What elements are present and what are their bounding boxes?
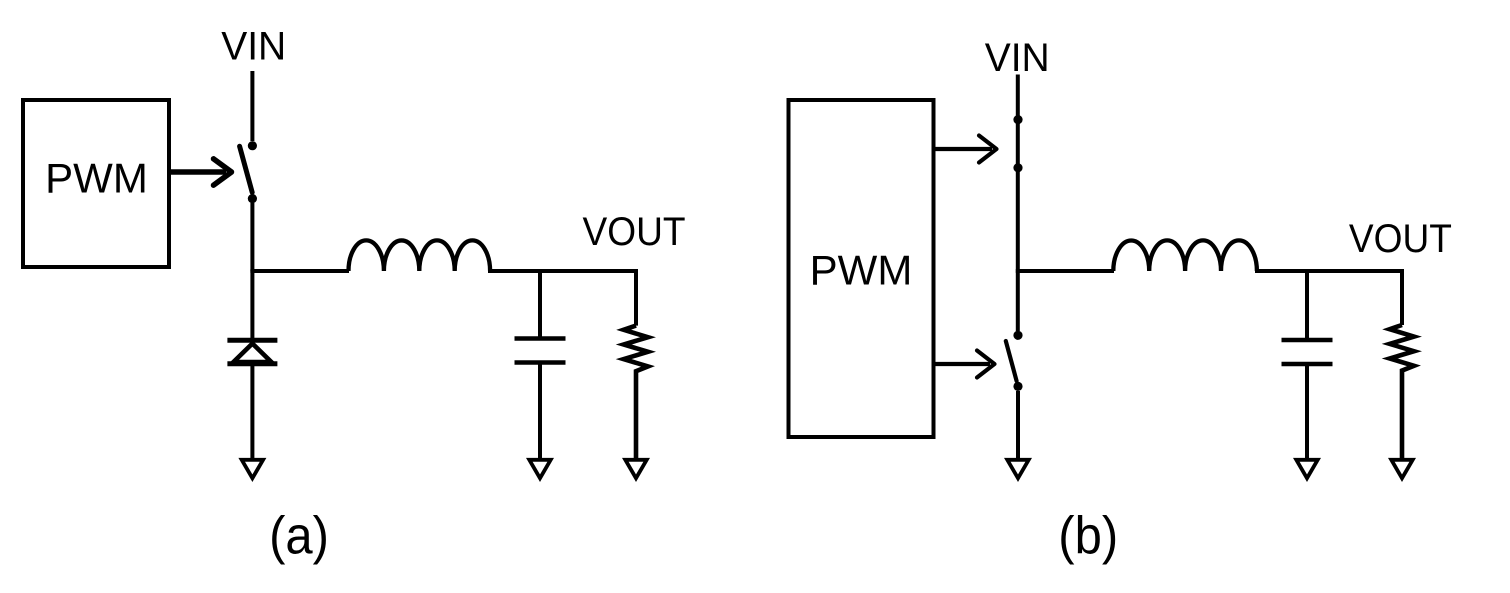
svg-text:VIN: VIN — [985, 36, 1050, 80]
svg-text:PWM: PWM — [810, 246, 913, 293]
svg-text:(a): (a) — [269, 506, 329, 565]
svg-text:PWM: PWM — [45, 154, 148, 201]
svg-text:VIN: VIN — [221, 24, 286, 68]
svg-text:VOUT: VOUT — [1349, 217, 1452, 261]
svg-text:(b): (b) — [1058, 506, 1118, 565]
svg-text:VOUT: VOUT — [583, 210, 686, 254]
